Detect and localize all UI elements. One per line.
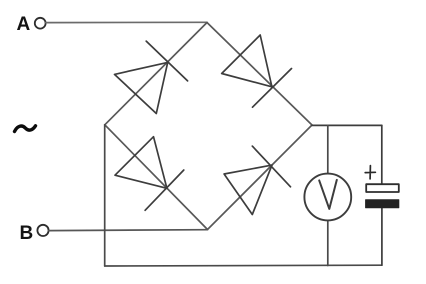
diode D4 cathode bar — [252, 146, 290, 187]
wire capacitor branch upper — [381, 125, 383, 185]
wire left vertex down to bottom rail — [104, 125, 106, 266]
capacitor C1 bottom plate — [366, 200, 399, 208]
wire diamond lower-left edge — [105, 125, 208, 230]
wire diamond upper-left edge — [105, 23, 207, 125]
wire voltmeter branch lower — [327, 221, 329, 266]
svg-text:A: A — [17, 14, 31, 35]
wire right vertex to capacitor branch — [312, 124, 382, 126]
diode D4 lower-right (triangle) — [224, 165, 272, 214]
svg-text:B: B — [20, 223, 34, 244]
wire B to bottom node — [49, 229, 208, 232]
wire diamond upper-right edge — [207, 23, 312, 126]
diode D3 cathode bar — [145, 170, 184, 210]
voltmeter V letter — [319, 180, 337, 209]
capacitor C1 top plate — [366, 184, 399, 192]
diode D2 upper-right (triangle) — [222, 35, 272, 87]
wire A to top node — [46, 21, 207, 23]
diode D1 cathode bar — [146, 41, 187, 81]
AC source tilde — [15, 126, 36, 132]
capacitor C1 plus sign — [365, 166, 375, 179]
wire capacitor branch lower — [381, 207, 383, 265]
diode D3 lower-left (triangle) — [115, 137, 167, 189]
diode D2 cathode bar — [253, 69, 292, 108]
voltmeter V1 circle — [304, 174, 351, 221]
diode D1 upper-left (triangle) — [115, 62, 168, 113]
wire diamond lower-right edge — [208, 125, 313, 230]
wire bottom rail — [105, 264, 382, 267]
wire voltmeter branch upper — [327, 125, 329, 173]
terminal B circle — [37, 225, 48, 236]
terminal A circle — [35, 18, 46, 29]
